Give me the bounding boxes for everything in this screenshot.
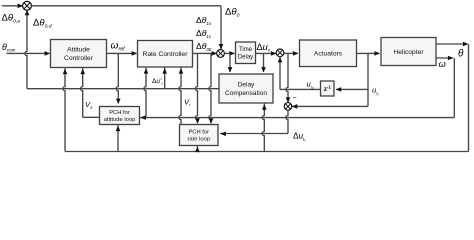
wire: Time Delay to S3: [256, 52, 276, 54]
wire: compensation output line to the left (delta-theta_0,d): [27, 88, 219, 90]
wire: S2 to Time Delay: [224, 52, 234, 54]
wire: compensation branch up into Rate Controller bottom: [164, 68, 166, 89]
wire: u_tc horizontal into S4: [292, 105, 368, 107]
wire: input into summing junction S1: [2, 5, 23, 7]
wire: S1 output top line to corner: [31, 5, 221, 7]
block: PCH for rate loop: [180, 125, 219, 146]
svg-text:PCH for: PCH for: [109, 110, 130, 116]
wire: delayed collective riser from compensation line up into S1: [25, 10, 27, 89]
wire: riser from bottom line into PCH attitude bottom: [117, 125, 119, 151]
wire: z^-1 output (u_t0) to riser: [280, 88, 321, 90]
wire: top line corner down into S2: [220, 6, 222, 49]
svg-text:Compensation: Compensation: [225, 90, 267, 97]
svg-text:rate loop: rate loop: [187, 137, 210, 143]
svg-text:ω: ω: [439, 58, 446, 69]
wire: theta feedback bottom line: [65, 151, 469, 153]
svg-text:Actuators: Actuators: [314, 51, 343, 58]
svg-text:−: −: [293, 95, 297, 102]
wire: riser from bottom line into PCH rate bottom: [196, 146, 198, 151]
wire: tap down from S2 output into Delay Compensation top: [229, 53, 231, 72]
wire: Actuators to Helicopter: [357, 52, 380, 54]
svg-text:Delay: Delay: [238, 55, 253, 61]
block: PCH for attitude loop: [100, 107, 140, 125]
wire: Rate Controller to S2: [193, 52, 217, 54]
svg-text:Helicopter: Helicopter: [393, 49, 424, 56]
wire: S3 to Actuators: [283, 52, 298, 54]
svg-text:Attitude: Attitude: [67, 47, 90, 54]
block: z^-1 unit delay: [321, 81, 335, 96]
wire: u_tc down to S4 feed corner and into S4 right: [367, 105, 369, 107]
block: Delay Compensation: [219, 74, 273, 103]
wire: tap down to PCH rate top (1): [195, 53, 197, 123]
svg-text:attitude loop: attitude loop: [104, 117, 136, 123]
block: Rate Controller: [138, 41, 193, 68]
block: Helicopter: [381, 38, 436, 66]
wire: tap down from delta-u_c wire into Delay Compensation top: [263, 53, 265, 72]
wire: theta output of helicopter: [436, 43, 464, 45]
wire: riser from bottom theta line up into Delay Compensation bottom: [262, 104, 264, 152]
wire: PCH attitude output left then up into Attitude Controller bottom: [83, 116, 100, 118]
summing junction S3: [276, 49, 284, 57]
wire: theta riser into Attitude Controller bottom: [63, 68, 65, 151]
wire: tap down from commanded u into S4 (minus input): [286, 53, 288, 102]
wire: delta-u_tc line into PCH rate: [220, 133, 288, 135]
summing junction S2: [217, 50, 225, 58]
wire: tap down from omega_ref wire into PCH attitude top: [116, 53, 118, 103]
svg-text:Controller: Controller: [64, 55, 94, 62]
wire: PCH rate output riser up into Rate Controller bottom: [179, 68, 181, 125]
wire: S4 output down and left into PCH rate right edge: [286, 110, 288, 134]
summing junction S4: [284, 103, 292, 111]
wire: Attitude Controller to Rate Controller: [107, 52, 137, 54]
wire: omega feedback line into PCH attitude right edge: [140, 117, 454, 119]
summing junction S1 (collective): [23, 1, 32, 10]
wire: u_tc into z^-1 right side: [336, 88, 368, 90]
block: Attitude Controller: [51, 40, 107, 68]
wire: u_tc tap down from actuator output: [367, 53, 369, 106]
svg-text:Delay: Delay: [238, 82, 255, 89]
wire: theta_com into Attitude Controller: [7, 52, 50, 54]
block: Actuators: [300, 40, 357, 67]
wire: omega feedback down: [453, 58, 455, 118]
svg-text:Rate Controller: Rate Controller: [143, 51, 189, 58]
svg-text:Time: Time: [239, 47, 253, 53]
wire: tap down to PCH rate top (2): [209, 53, 211, 123]
wire: u_t0 riser up into S3: [279, 56, 281, 89]
svg-text:θ: θ: [458, 48, 464, 59]
svg-text:PCH for: PCH for: [188, 129, 209, 135]
block: Time Delay: [236, 42, 256, 64]
wire: theta feedback down right edge: [468, 44, 470, 152]
wire: omega riser into Rate Controller bottom: [144, 68, 146, 118]
wire: omega output of helicopter: [436, 57, 453, 59]
